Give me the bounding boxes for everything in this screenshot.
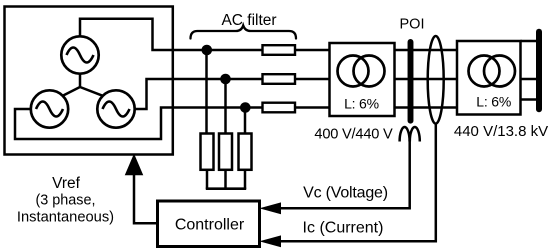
filter series inductor L2 — [263, 74, 296, 84]
filter shunt resistor R2 — [219, 134, 232, 170]
svg-text:Ic (Current): Ic (Current) — [303, 220, 384, 237]
filter bottom bus — [206, 187, 246, 190]
POI bus bar — [408, 42, 414, 121]
filter shunt stub 3 — [244, 170, 247, 190]
transformer T1 box — [330, 43, 395, 116]
Y junction wires — [63, 74, 103, 96]
svg-text:Vc (Voltage): Vc (Voltage) — [303, 185, 388, 202]
filter shunt resistor R1 — [201, 134, 214, 170]
svg-text:Controller: Controller — [175, 217, 245, 234]
Vref arrowhead — [126, 155, 143, 175]
Ic sense wire — [281, 123, 436, 241]
stub T2 to grid bar lower — [521, 98, 538, 101]
svg-text:Instantaneous): Instantaneous) — [17, 210, 114, 226]
filter shunt stub 2 — [224, 170, 227, 190]
filter shunt stub 1 — [206, 170, 209, 190]
AC source B (left) — [31, 90, 68, 127]
Vc arrowhead — [261, 203, 281, 214]
stub T2 to grid bar middle — [521, 78, 538, 81]
AC source A (top) — [61, 36, 98, 73]
svg-text:400 V/440 V: 400 V/440 V — [314, 126, 393, 142]
controller box — [158, 201, 260, 247]
grid bus bar — [536, 32, 542, 109]
junction dot phase 1 — [202, 45, 213, 56]
wire phase line 2 (from right source circle) — [135, 79, 460, 109]
wire phase line 1 (top, from source via x=152.5 jog) — [80, 19, 460, 50]
controller output wire — [134, 175, 158, 224]
svg-text:L: 6%: L: 6% — [344, 95, 379, 111]
transformer T2 box — [457, 41, 521, 115]
AC source C (right) — [97, 90, 134, 127]
svg-text:(3 phase,: (3 phase, — [35, 193, 95, 209]
Vc sense wire — [281, 140, 410, 208]
filter series inductor L3 — [263, 103, 296, 113]
svg-text:Vref: Vref — [52, 175, 81, 192]
filter dropper wire 3 — [244, 108, 247, 135]
CT ellipse — [428, 36, 444, 124]
transformer T2 winding circles — [469, 56, 500, 87]
svg-text:POI: POI — [400, 17, 425, 33]
wire phase line 3 (from left source circle via bottom route) — [15, 108, 460, 140]
Ic arrowhead — [261, 236, 281, 247]
junction dot phase 2 — [220, 74, 231, 85]
transformer T1 winding circles — [338, 56, 369, 87]
svg-text:440 V/13.8 kV: 440 V/13.8 kV — [454, 123, 548, 140]
filter dropper wire 1 — [205, 50, 208, 134]
source box — [5, 7, 173, 155]
PT symbol (double hump) — [400, 127, 420, 142]
filter dropper wire 2 — [224, 79, 227, 134]
svg-text:L: 6%: L: 6% — [476, 94, 511, 110]
junction dot phase 3 — [240, 102, 251, 113]
stub T2 to grid bar top — [521, 40, 538, 43]
svg-text:AC filter: AC filter — [221, 12, 276, 29]
filter shunt resistor R3 — [239, 134, 252, 170]
AC filter brace — [191, 26, 297, 39]
filter series inductor L1 — [263, 45, 296, 55]
